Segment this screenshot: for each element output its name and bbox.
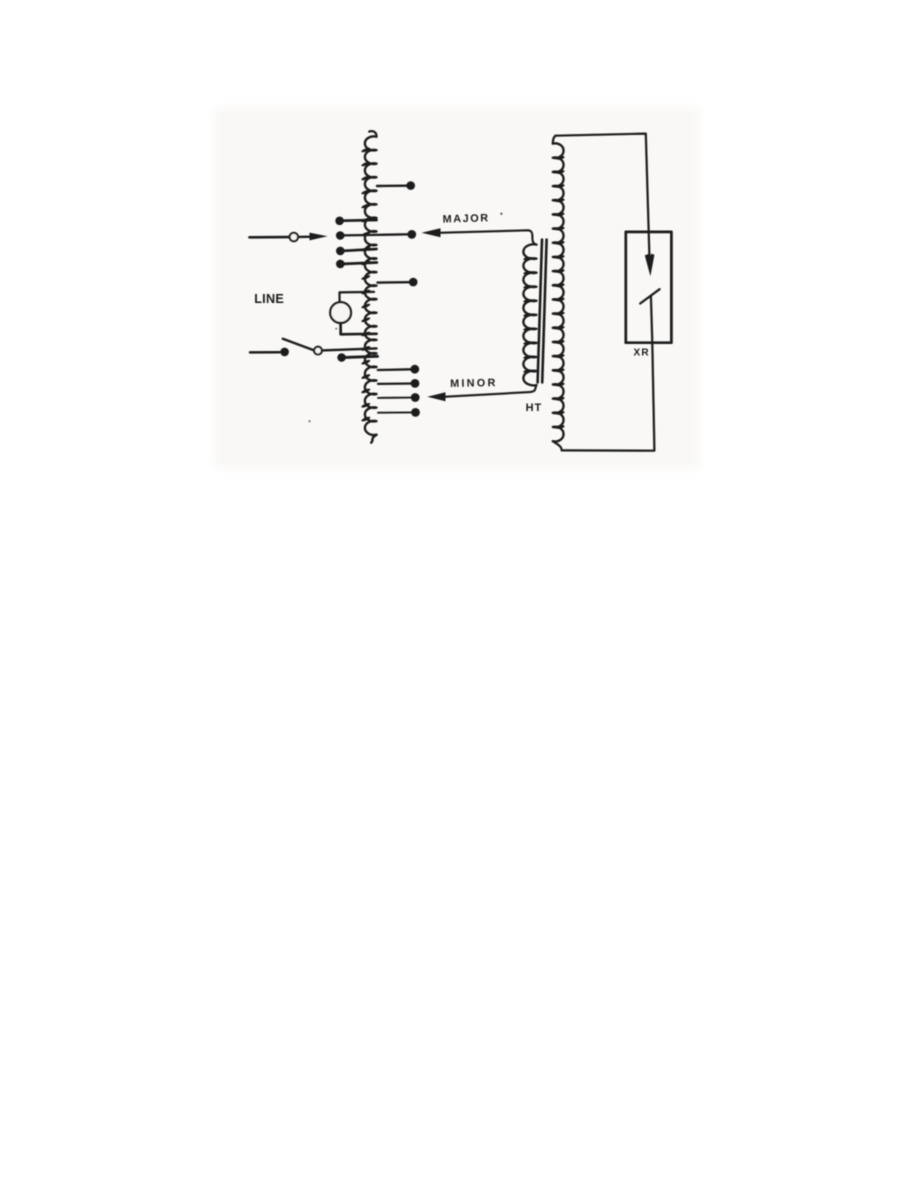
XR anode slash [640, 289, 659, 303]
tap stub with terminal dot (right, y=412) [378, 408, 420, 417]
MAJOR arrow wire to HT primary top [422, 228, 537, 244]
MINOR arrow wire to HT primary bottom [427, 385, 536, 401]
tap stub with terminal dot (left, y=220) [335, 217, 376, 226]
upper LINE conductor with open terminal and arrow [250, 233, 328, 242]
scanned paper region [214, 107, 699, 469]
tap stub with terminal dot (left, y=357) [337, 353, 377, 362]
ink speck [500, 213, 502, 215]
transformer HT secondary winding [553, 136, 565, 449]
autotransformer tapped winding (LINE side) [361, 131, 377, 442]
tap stub with terminal dot (right, y=186) [377, 181, 415, 190]
svg-text:HT: HT [526, 402, 543, 414]
wire: secondary top to XR tube [555, 134, 649, 256]
tap stub with terminal dot (right, y=282) [378, 278, 418, 287]
tap stub with terminal dot (right, y=398, MINOR tap) [378, 393, 420, 402]
svg-text:XR: XR [634, 348, 650, 359]
tap stub with terminal dot (right, y=383) [378, 379, 419, 388]
svg-text:LINE: LINE [254, 292, 284, 306]
wire: XR bottom to secondary bottom [562, 296, 655, 451]
tap line through winding to MAJOR terminal (y=234) [336, 230, 416, 240]
XR cathode arrow [645, 254, 655, 277]
ink speck [309, 420, 311, 422]
tap stub with terminal dot (left, y=250) [336, 247, 377, 256]
svg-text:MAJOR: MAJOR [443, 212, 490, 225]
ink speck [335, 328, 337, 330]
tap stub with terminal dot (left, y=264) [336, 260, 377, 269]
svg-text:MINOR: MINOR [450, 377, 498, 390]
transformer HT core [538, 240, 547, 383]
lower LINE conductor with switch [250, 339, 377, 356]
tap stub with terminal dot (right, y=369) [378, 365, 419, 374]
transformer HT primary winding [523, 244, 536, 385]
XR tube box [626, 232, 672, 343]
indicator lamp across winding section [330, 292, 376, 334]
